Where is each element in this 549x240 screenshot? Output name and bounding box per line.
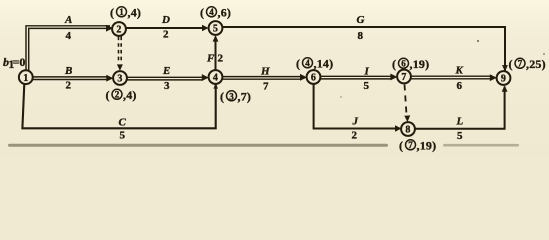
- wire edge J single line 6 to 8 bottom: [314, 84, 402, 132]
- svg-text:6: 6: [401, 58, 406, 68]
- svg-text:3: 3: [229, 91, 234, 101]
- svg-text:2: 2: [116, 25, 121, 36]
- svg-text:,7): ,7): [238, 90, 252, 104]
- svg-text:2: 2: [218, 53, 224, 65]
- svg-text:(: (: [509, 57, 513, 71]
- wire edge D single line 2 to 5: [126, 25, 209, 32]
- node 8 circle: [401, 122, 415, 136]
- svg-text:3: 3: [117, 74, 122, 85]
- svg-text:7: 7: [401, 72, 406, 83]
- svg-text:J: J: [352, 116, 359, 128]
- svg-text:(: (: [106, 88, 110, 102]
- svg-text:6: 6: [311, 73, 316, 84]
- svg-text:7: 7: [408, 140, 413, 150]
- node 4 circle: [209, 70, 223, 84]
- svg-text:,4): ,4): [123, 88, 137, 102]
- svg-text:5: 5: [120, 130, 126, 142]
- speck below node 6: [340, 96, 342, 98]
- wire edge L single line 8 to 9 bottom route: [415, 85, 508, 128]
- svg-text:2: 2: [115, 89, 120, 99]
- node b1=0 source label: [3, 55, 25, 71]
- node 3 label (2,4): [106, 88, 137, 102]
- svg-text:B: B: [64, 65, 72, 77]
- svg-text:,19): ,19): [417, 139, 437, 153]
- wire edge G single line 5 to 9 top route: [223, 27, 508, 72]
- node 9 circle: [497, 71, 511, 85]
- speck near G vertical: [477, 40, 479, 42]
- svg-text:(: (: [392, 57, 396, 71]
- wire edge E double line 3 to 4: [127, 74, 209, 81]
- svg-text:1: 1: [119, 7, 124, 17]
- svg-text:1: 1: [23, 73, 28, 84]
- wire edge H double line 4 to 6: [223, 74, 308, 81]
- svg-text:=0: =0: [13, 55, 26, 69]
- svg-text:(: (: [399, 139, 403, 153]
- wire edge K double line 7 to 9: [411, 74, 497, 81]
- svg-text:5: 5: [457, 130, 463, 142]
- svg-text:4: 4: [209, 7, 214, 17]
- node 7 label (6,19): [392, 57, 429, 71]
- node 5 circle: [209, 21, 223, 35]
- svg-text:2: 2: [163, 29, 169, 41]
- node 7 circle: [397, 70, 411, 84]
- node 3 circle: [113, 71, 127, 85]
- node 6 circle: [307, 70, 321, 84]
- svg-text:(: (: [200, 6, 204, 20]
- scan artifact bottom band: [8, 144, 519, 147]
- svg-text:2: 2: [66, 79, 72, 91]
- svg-text:7: 7: [518, 58, 523, 68]
- node 9 label (7,25): [509, 57, 546, 71]
- speck right of node 9 label: [543, 53, 545, 55]
- node 6 label (4,14): [296, 57, 333, 71]
- wire edge I double line 6 to 7: [321, 74, 398, 81]
- svg-text:,19): ,19): [410, 57, 430, 71]
- svg-text:I: I: [364, 66, 370, 78]
- svg-text:C: C: [119, 116, 127, 128]
- svg-text:E: E: [162, 65, 170, 77]
- svg-text:5: 5: [364, 80, 370, 92]
- svg-text:(: (: [220, 90, 224, 104]
- svg-text:,6): ,6): [218, 6, 232, 20]
- svg-text:7: 7: [263, 81, 269, 93]
- svg-text:L: L: [456, 116, 464, 128]
- svg-text:(: (: [296, 57, 300, 71]
- svg-text:K: K: [455, 64, 464, 76]
- wire edge F single line 4 to 5: [213, 35, 219, 70]
- svg-text:5: 5: [213, 24, 218, 35]
- svg-text:6: 6: [457, 80, 463, 92]
- node 4 label (3,7): [220, 90, 251, 104]
- svg-text:4: 4: [305, 58, 310, 68]
- svg-text:9: 9: [501, 74, 506, 85]
- node 5 label (4,6): [200, 6, 231, 20]
- node 8 label (7,19): [399, 139, 436, 153]
- svg-text:4: 4: [213, 73, 218, 84]
- svg-text:8: 8: [358, 30, 364, 42]
- wire edge B double line 1 to 3: [33, 75, 114, 82]
- svg-text:F: F: [206, 53, 215, 65]
- svg-text:4: 4: [66, 30, 72, 42]
- dummy arrow dashed single 7 to 8: [404, 85, 410, 123]
- svg-text:,4): ,4): [128, 6, 142, 20]
- svg-text:A: A: [64, 14, 72, 26]
- wire edge C single line 1 to 4 bottom route: [22, 83, 218, 128]
- wire edge A double line 1 to 2: [26, 25, 113, 71]
- dummy arrow dashed double 2 to 3: [117, 37, 123, 71]
- svg-text:(: (: [110, 6, 114, 20]
- svg-text:G: G: [357, 14, 365, 26]
- node 2 label (1,4): [110, 6, 141, 20]
- node 2 circle: [112, 22, 126, 36]
- svg-text:3: 3: [164, 80, 170, 92]
- svg-text:8: 8: [405, 125, 410, 136]
- svg-text:,14): ,14): [314, 57, 334, 71]
- svg-text:D: D: [161, 14, 170, 26]
- node 1 circle: [19, 70, 33, 84]
- svg-text:2: 2: [352, 129, 358, 141]
- svg-text:H: H: [260, 66, 270, 78]
- svg-text:,25): ,25): [526, 57, 546, 71]
